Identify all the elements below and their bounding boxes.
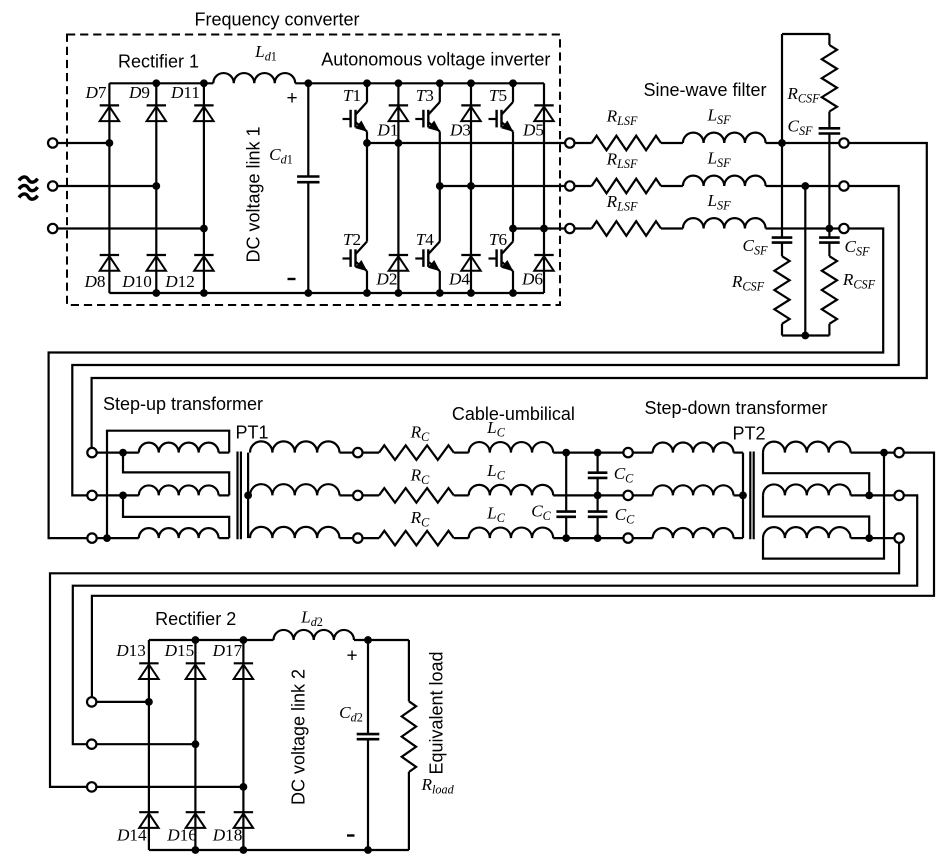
wire PT2 delta link bottom [763, 453, 884, 559]
label Ld1 [254, 42, 277, 64]
wire LC to terminal row1 [553, 452, 623, 454]
label Step-up transformer [103, 394, 263, 414]
wire inverter phase B output [440, 185, 565, 187]
capacitor CSF top [819, 128, 841, 133]
junction PT1 row3 [103, 534, 111, 542]
junction D5 midpoint [540, 225, 548, 233]
junction Cd2 top [364, 636, 372, 644]
wire D6 leg [543, 229, 545, 294]
svg-text:D17: D17 [212, 641, 243, 660]
wire PT2 delta link 1-2 [763, 453, 869, 496]
wire bus filter B to PT1 [72, 186, 898, 495]
terminal cable left 1 [353, 448, 362, 457]
wire PT1 secondary2 out [340, 494, 354, 496]
label D13 [115, 641, 146, 660]
wire Ld2 to load [354, 639, 409, 641]
wire rect2 leg 2 [194, 640, 196, 850]
junction rect2 bottom leg2 [192, 846, 200, 854]
svg-text:Frequency converter: Frequency converter [194, 10, 359, 30]
svg-text:Rectifier 2: Rectifier 2 [155, 609, 236, 629]
junction CC2 row3 [594, 534, 602, 542]
diode D2 [389, 255, 408, 271]
label LC row2 [486, 461, 506, 483]
svg-text:D9: D9 [128, 83, 150, 102]
winding PT2 secondary 2 [763, 484, 851, 495]
label D8 [83, 272, 105, 291]
junction D3 midpoint [467, 182, 475, 190]
wire PT2 delta link 2-3 [763, 495, 869, 538]
inductor LSF phase C [683, 218, 766, 228]
svg-text:D5: D5 [522, 121, 544, 140]
label T6 [489, 230, 508, 249]
diode D4 [461, 255, 480, 271]
label Sine-wave filter [643, 80, 766, 100]
wire Cd2 lower [367, 739, 369, 850]
resistor RC row1 [379, 445, 454, 460]
wire PT2 primary1 lead [633, 452, 653, 454]
winding PT1 secondary 1 [250, 441, 340, 452]
three-phase AC source symbol [19, 177, 38, 199]
junction D1 top rail [395, 79, 403, 87]
junction PT1 row2 [119, 492, 127, 500]
terminal rectifier2 input 2 [87, 740, 96, 749]
terminal inverter phase B [565, 181, 574, 190]
terminal rectifier2 input 1 [87, 697, 96, 706]
wire D1 leg [397, 83, 399, 143]
wire filter star rail [782, 334, 829, 336]
label D15 [164, 641, 195, 660]
label Ld2 [300, 608, 323, 630]
wire T6 emitter to rail [512, 271, 514, 293]
wire RLSF to LSF phase B [661, 185, 683, 187]
resistor RLSF phase B [592, 179, 661, 194]
resistor RC row2 [379, 488, 454, 503]
wire PT1 row1 lead [97, 452, 139, 454]
label RCSF top [786, 84, 820, 106]
junction T5 top rail [509, 79, 517, 87]
diode D1 [389, 105, 408, 121]
wire bus filter A to PT1 [92, 143, 927, 448]
junction T1 midpoint [363, 139, 371, 147]
junction PT2 primary star [739, 492, 747, 500]
junction T6 bottom rail [509, 289, 517, 297]
svg-text:Rectifier 1: Rectifier 1 [118, 52, 199, 72]
wire shunt branch B vertical [804, 186, 806, 336]
junction rect2 bottom leg3 [240, 846, 248, 854]
wire PT2 primary3 lead [633, 537, 653, 539]
wire T2 leg upper [366, 143, 368, 242]
terminal PT1 input 1 [87, 448, 96, 457]
capacitor Cd1 [297, 177, 319, 183]
wire filter phase A lead-in [575, 142, 592, 144]
svg-text:T4: T4 [416, 230, 435, 249]
label CC branch1 [531, 502, 551, 524]
svg-text:Equivalent load: Equivalent load [427, 651, 447, 774]
svg-text:D13: D13 [115, 641, 146, 660]
transistor T4 [415, 242, 440, 272]
junction T4 bottom rail [436, 289, 444, 297]
svg-text:T5: T5 [489, 86, 507, 105]
label RC row1 [410, 423, 431, 445]
wire rect2 bottom rail [149, 849, 409, 851]
diode D13 [139, 663, 158, 679]
wire LSF to output phase C [766, 227, 840, 229]
wire CSF to RCSF branch A [781, 243, 783, 257]
label plus dclink1 [286, 88, 297, 109]
svg-text:+: + [346, 646, 357, 667]
winding PT2 primary 2 [653, 485, 734, 495]
junction PT2 secondary row1 [880, 449, 888, 457]
label CSF branch A [742, 236, 768, 258]
junction phase A leg1 [106, 139, 114, 147]
label CC branch2 upper [614, 464, 634, 486]
wire PT1 row2 lead [97, 494, 139, 496]
diode D6 [534, 255, 553, 271]
wire phase B input [57, 185, 156, 187]
core PT2 [750, 452, 753, 540]
wire cable row3 lead [363, 537, 380, 539]
wire PT2 primary3 right [734, 537, 744, 539]
wire RCSF A to star rail [781, 324, 783, 336]
junction D4 bottom rail [467, 289, 475, 297]
svg-text:T2: T2 [343, 230, 361, 249]
label T5 [489, 86, 507, 105]
wire T3 emitter to midpoint [439, 132, 441, 187]
label RCSF branch C [842, 270, 876, 292]
junction rect2 phase1 [145, 698, 153, 706]
capacitor Cd2 [357, 734, 380, 739]
wire phase C input [57, 227, 204, 229]
label RLSF phase A [606, 107, 638, 129]
label Cable-umbilical [452, 404, 575, 424]
wire PT1 primary3 right [219, 537, 230, 539]
resistor RCSF branch C [822, 256, 837, 324]
svg-text:Sine-wave filter: Sine-wave filter [643, 80, 766, 100]
junction D2 bottom rail [395, 289, 403, 297]
wire cable cap branch 1 [565, 453, 567, 512]
wire T4 emitter to rail [439, 271, 441, 293]
label D9 [128, 83, 150, 102]
diode D14 [139, 812, 158, 828]
label minus dclink1 [288, 278, 296, 280]
junction phase C leg3 [200, 225, 208, 233]
transistor T2 [343, 242, 368, 272]
wire D3 leg [470, 83, 472, 186]
svg-text:D12: D12 [164, 272, 195, 291]
wire bus PT2-3 to rectifier2 [50, 543, 899, 787]
frequency converter dashed enclosure [67, 35, 560, 306]
label CSF branch C [844, 237, 870, 259]
label LSF phase A [706, 106, 731, 128]
svg-text:T3: T3 [416, 86, 434, 105]
svg-text:Step-up transformer: Step-up transformer [103, 394, 263, 414]
label T2 [343, 230, 361, 249]
inductor LC row2 [469, 485, 553, 496]
wire cable row2 lead [363, 494, 380, 496]
capacitor CC branch2 lower [588, 512, 608, 517]
svg-text:T1: T1 [343, 86, 361, 105]
svg-text:D10: D10 [121, 272, 152, 291]
wire Cd1 leg lower [307, 182, 309, 293]
wire bus filter C to PT1 [49, 229, 884, 539]
junction rect2 phase3 [240, 783, 248, 791]
label D7 [84, 83, 106, 102]
wire bus PT2-2 to rectifier2 [73, 495, 917, 744]
wire PT2 primary2 right [734, 494, 744, 496]
terminal PT1 input 3 [87, 533, 96, 542]
terminal filter phase A [839, 138, 848, 147]
label minus dclink2 [347, 834, 355, 836]
diode D15 [186, 663, 205, 679]
terminal PT2 output 3 [894, 533, 903, 542]
winding PT2 primary 3 [653, 528, 734, 538]
label RLSF phase B [606, 150, 638, 172]
label RC row3 [410, 508, 431, 530]
wire D4 leg [470, 186, 472, 293]
wire LC to terminal row2 [553, 494, 623, 496]
wire PT1 primary2 right [219, 494, 230, 496]
wire filter phase B lead-in [575, 185, 592, 187]
wire PT2 primary star [742, 453, 744, 538]
svg-text:D3: D3 [449, 121, 471, 140]
svg-text:D16: D16 [166, 826, 197, 845]
svg-text:D8: D8 [83, 272, 105, 291]
junction CC2 row1 [594, 449, 602, 457]
junction Cd1 top [304, 79, 312, 87]
label D3 [449, 121, 471, 140]
svg-text:PT1: PT1 [235, 423, 268, 443]
label D12 [164, 272, 195, 291]
label D18 [212, 826, 243, 845]
wire T6 leg upper [512, 229, 514, 242]
wire T1 emitter to midpoint [366, 132, 368, 144]
input terminal phase C [48, 224, 57, 233]
terminal cable right 3 [623, 533, 632, 542]
wire T3 collector stub [439, 83, 441, 102]
wire CSF to RCSF branch C [828, 243, 830, 257]
junction shunt B phase B [801, 182, 809, 190]
junction T1 top rail [363, 79, 371, 87]
junction Cd1 bottom [304, 289, 312, 297]
transistor T5 [489, 102, 514, 132]
label LC row3 [486, 504, 506, 526]
label Rectifier 1 [118, 52, 199, 72]
junction PT2 secondary row2 [865, 492, 873, 500]
terminal cable right 2 [623, 491, 632, 500]
diode D16 [186, 812, 205, 828]
wire rect2 phase1 in [96, 701, 148, 703]
wire RLSF to LSF phase C [661, 227, 683, 229]
input terminal phase A [48, 138, 57, 147]
label T3 [416, 86, 434, 105]
wire RCSF C to star rail [828, 324, 830, 336]
label CSF top [787, 117, 813, 139]
junction phase B leg2 [152, 182, 160, 190]
capacitor CC branch2 upper [588, 473, 608, 478]
wire T4 leg upper [439, 186, 441, 242]
diode D7 [100, 105, 119, 121]
junction T5 midpoint [509, 225, 517, 233]
winding PT1 primary 2 [139, 485, 219, 495]
input terminal phase B [48, 181, 57, 190]
diode D18 [234, 812, 253, 828]
winding PT2 secondary 1 [763, 442, 851, 453]
svg-text:D2: D2 [375, 270, 397, 289]
winding PT2 primary 1 [653, 443, 734, 453]
wire PT2 secondary3 out [851, 537, 895, 539]
label D1 [376, 121, 398, 140]
wire PT1 row3 lead [97, 537, 139, 539]
wire rect2 top rail [149, 639, 274, 641]
label Autonomous voltage inverter [321, 50, 550, 70]
wire cable cap branch 1 lower [565, 517, 567, 538]
svg-text:+: + [286, 88, 297, 109]
label D5 [522, 121, 544, 140]
svg-text:DC voltage link 1: DC voltage link 1 [244, 126, 264, 262]
wire RC to LC row3 [454, 537, 469, 539]
label RC row2 [410, 466, 431, 488]
label Cd1 [269, 145, 293, 167]
wire rectifier leg 1 [108, 83, 110, 293]
svg-text:Autonomous voltage inverter: Autonomous voltage inverter [321, 50, 550, 70]
wire RLSF to LSF phase A [661, 142, 683, 144]
terminal PT2 output 2 [894, 491, 903, 500]
svg-text:D18: D18 [212, 826, 243, 845]
svg-text:D15: D15 [164, 641, 195, 660]
resistor RCSF top [822, 45, 837, 112]
wire PT2 secondary1 out [851, 452, 895, 454]
wire rect2 leg 1 [148, 640, 150, 850]
wire rectifier top rail [109, 82, 213, 84]
label Cd2 [339, 703, 363, 725]
junction T3 midpoint [436, 182, 444, 190]
diode D3 [461, 105, 480, 121]
junction bottom rail leg2 [152, 289, 160, 297]
wire LSF to output phase B [766, 185, 840, 187]
terminal filter phase B [839, 181, 848, 190]
junction shunt A phase A [778, 139, 786, 147]
label D10 [121, 272, 152, 291]
label D17 [212, 641, 243, 660]
wire PT1 primary1 right [219, 452, 230, 454]
label D6 [521, 270, 543, 289]
junction CC1 row3 [562, 534, 570, 542]
wire cable cap branch2 lower [596, 517, 598, 538]
wire LC to terminal row3 [553, 537, 623, 539]
wire shunt branch A vertical [781, 34, 783, 238]
wire RCSF to CSF top [828, 112, 830, 129]
wire cable row1 lead [363, 452, 380, 454]
diode D9 [147, 105, 166, 121]
label PT2 [732, 424, 765, 444]
diode D5 [534, 105, 553, 121]
junction PT2 secondary row3 [865, 534, 873, 542]
junction bottom rail leg3 [200, 289, 208, 297]
svg-text:D1: D1 [376, 121, 398, 140]
label LSF phase B [706, 149, 731, 171]
terminal cable left 3 [353, 533, 362, 542]
junction Cd2 bottom [364, 846, 372, 854]
junction rectifier top rail leg3 [200, 79, 208, 87]
junction CC2 row2 [594, 492, 602, 500]
label LSF phase C [706, 191, 731, 213]
wire bus PT2-1 to rectifier2 [92, 453, 934, 698]
wire RC to LC row1 [454, 452, 469, 454]
junction rect2 phase2 [192, 740, 200, 748]
resistor Rload [402, 701, 416, 772]
wire PT1 delta link 2-3 [123, 495, 229, 538]
label plus dclink2 [346, 646, 357, 667]
wire top rail to inverter [295, 82, 544, 84]
core PT1 [238, 452, 241, 540]
svg-text:D4: D4 [448, 270, 470, 289]
junction CC1 row1 [562, 449, 570, 457]
svg-text:D14: D14 [116, 826, 147, 845]
wire shunt top loop [782, 33, 829, 35]
inductor Ld1 [213, 73, 295, 83]
inductor LC row1 [469, 442, 553, 453]
svg-text:Cable-umbilical: Cable-umbilical [452, 404, 575, 424]
terminal cable left 2 [353, 491, 362, 500]
terminal rectifier2 input 3 [87, 782, 96, 791]
wire rectifier leg 2 [155, 83, 157, 293]
label Frequency converter [194, 10, 359, 30]
wire D2 leg [397, 143, 399, 293]
wire phase A input [57, 142, 109, 144]
wire cable cap branch2 mid upper [596, 478, 598, 512]
svg-text:PT2: PT2 [732, 424, 765, 444]
wire PT2 primary2 lead [633, 494, 653, 496]
junction T2 bottom rail [363, 289, 371, 297]
label PT1 [235, 423, 268, 443]
junction PT1 secondary star [244, 492, 252, 500]
label D11 [170, 83, 200, 102]
wire T1 collector stub [366, 83, 368, 102]
capacitor CSF branch A [772, 238, 793, 243]
svg-text:DC voltage link 2: DC voltage link 2 [289, 669, 309, 805]
label T1 [343, 86, 361, 105]
wire Cd1 leg upper [307, 83, 309, 176]
wire Rload upper [408, 640, 410, 701]
wire Cd2 upper [367, 640, 369, 734]
capacitor CC branch1 [556, 512, 576, 517]
svg-text:Step-down transformer: Step-down transformer [644, 398, 827, 418]
label D4 [448, 270, 470, 289]
inductor LSF phase B [683, 176, 766, 186]
wire rectifier leg 3 [203, 83, 205, 293]
junction D3 top rail [467, 79, 475, 87]
label RCSF branch A [731, 272, 765, 294]
wire Rload lower [408, 772, 410, 850]
diode D10 [147, 255, 166, 271]
inductor LC row3 [469, 528, 553, 539]
resistor RCSF branch A [774, 256, 789, 324]
wire top RCSF lead [828, 34, 830, 45]
terminal PT2 output 1 [894, 448, 903, 457]
wire PT1 delta link top [107, 431, 229, 538]
junction rect2 rail leg2 [192, 636, 200, 644]
junction D1 midpoint [395, 139, 403, 147]
transistor T6 [489, 242, 514, 272]
label T4 [416, 230, 435, 249]
wire inverter phase A output [367, 142, 565, 144]
terminal inverter phase A [565, 138, 574, 147]
wire PT1 delta link 1-2 [123, 453, 229, 496]
wire cable cap branch 2 upper [596, 453, 598, 473]
label RLSF phase C [606, 192, 638, 214]
label D16 [166, 826, 197, 845]
winding PT1 primary 1 [139, 443, 219, 453]
